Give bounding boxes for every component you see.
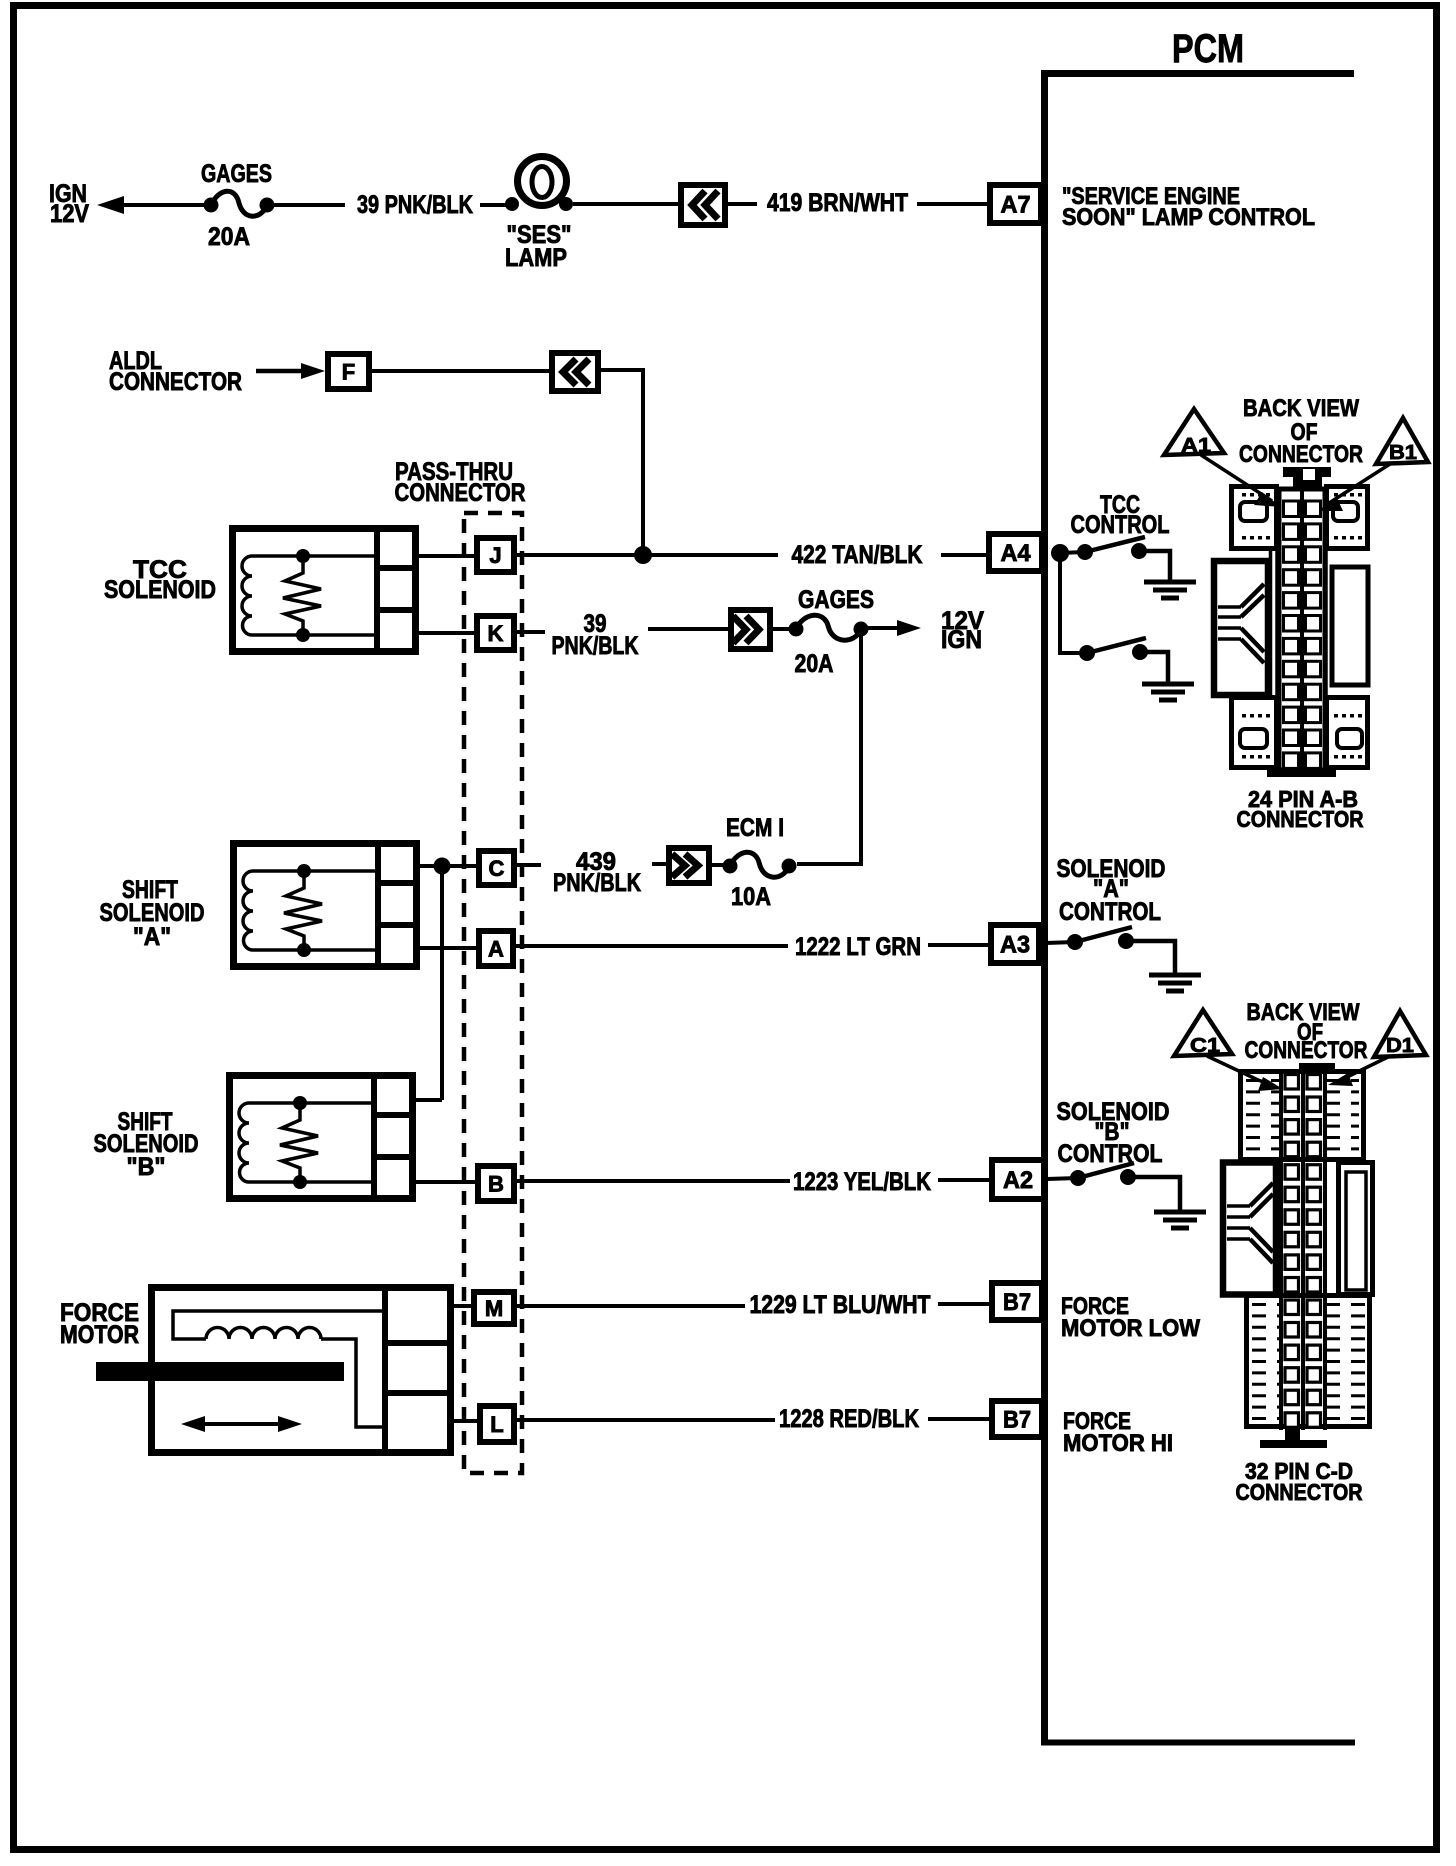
PCM block outline [1041,70,1355,1745]
ground (solenoid A control) [1149,975,1201,991]
svg-text:39 PNK/BLK: 39 PNK/BLK [357,191,473,219]
pin box F (ALDL) [328,354,369,389]
svg-text:A3: A3 [1000,932,1030,959]
svg-text:422 TAN/BLK: 422 TAN/BLK [792,541,923,569]
svg-text:C1: C1 [1190,1035,1220,1057]
svg-text:"B": "B" [127,1153,166,1181]
svg-text:C: C [489,856,505,881]
pass-thru pin box B [478,1166,514,1201]
label SOLENOID "B" CONTROL [1057,1098,1170,1168]
pass-thru pin box C [479,851,514,885]
caption 32 PIN C-D CONNECTOR [1236,1458,1363,1505]
svg-text:CONTROL: CONTROL [1059,898,1161,926]
label TCC CONTROL [1071,491,1170,539]
wire A2 to switch [1047,1178,1078,1179]
svg-text:"A": "A" [133,923,171,951]
svg-text:IGN: IGN [941,626,982,654]
callout triangle B1 [1376,418,1428,464]
24 pin left mid block with keyway hatch [1214,551,1277,696]
wire A3 to switch [1046,942,1075,943]
svg-text:A2: A2 [1003,1167,1033,1194]
wire solenoid B top feed (from C junction) [414,1098,442,1102]
svg-text:12V: 12V [50,200,89,228]
wire grommet to GAGES fuse [773,627,796,631]
wire switch to ground [1128,1177,1180,1210]
bulkhead grommet (right chevrons) C row [669,848,709,883]
svg-text:ECM I: ECM I [726,814,784,842]
wire force motor to pin M [452,1304,474,1308]
leader line C1 to pin [1207,1056,1283,1091]
pass-thru pin box J [477,538,514,572]
label BACK VIEW OF CONNECTOR (A-B) [1239,395,1363,468]
PCM pin box A2 [992,1160,1044,1199]
wire F to grommet [372,369,552,373]
PCM pin box B7 (force motor hi) [992,1401,1042,1437]
32 pin left mid block with keyway hatch [1223,1163,1276,1295]
svg-text:20A: 20A [795,650,834,678]
node IGN 12V (top left) [49,180,89,228]
leader line D1 to pin [1328,1057,1388,1086]
svg-text:CONNECTOR: CONNECTOR [1237,806,1364,832]
callout triangle C1 [1174,1010,1232,1057]
PCM pin box A7 [990,185,1041,223]
32 pin bottom block with dashes [1247,1296,1370,1427]
pass-thru connector dashed outline [464,513,522,1473]
PCM pin box B7 (force motor low) [992,1283,1042,1320]
svg-text:L: L [490,1412,503,1437]
wire lamp to bulkhead grommet [573,202,681,206]
pass-thru pin box L [480,1406,514,1442]
wire grommet to ECM I fuse [712,863,730,867]
24 pin connector body [1232,467,1368,770]
svg-text:1222 LT GRN: 1222 LT GRN [795,933,921,961]
PCM pin box A3 [991,925,1039,963]
svg-text:CONNECTOR: CONNECTOR [109,368,242,396]
svg-text:A: A [488,936,504,961]
svg-text:M: M [485,1296,503,1321]
wire fuse to lamp, label 39 PNK/BLK [274,191,506,219]
arrow ALDL to pin F [256,363,325,379]
svg-text:PCM: PCM [1172,27,1244,71]
svg-text:B1: B1 [1389,442,1417,464]
pass-thru pin box M [474,1292,514,1324]
wire solenoid A to pin A [420,946,479,950]
svg-text:J: J [489,543,501,568]
label SERVICE ENGINE SOON LAMP CONTROL [1062,183,1315,231]
svg-text:B7: B7 [1003,1407,1031,1434]
label FORCE MOTOR HI [1063,1408,1173,1457]
svg-text:B: B [488,1171,504,1196]
label ALDL CONNECTOR [109,347,242,396]
label BACK VIEW OF CONNECTOR (C-D) [1245,999,1368,1064]
callout triangle A1 [1164,409,1224,457]
wire 12V feed vertical (GAGES to ECM I) [797,629,861,864]
shift solenoid B component [230,1075,416,1199]
label SOLENOID "A" CONTROL [1057,855,1166,926]
svg-text:MOTOR LOW: MOTOR LOW [1061,1315,1200,1342]
svg-text:PNK/BLK: PNK/BLK [552,632,639,660]
wire junction down to TCC switch 2 [1060,553,1087,653]
TCC control switch 1 [1077,537,1147,560]
32 pin bottom tab foot [1260,1427,1327,1448]
caption 24 PIN A-B CONNECTOR [1237,786,1364,832]
svg-text:B7: B7 [1003,1289,1031,1316]
label FORCE MOTOR LOW [1061,1293,1200,1342]
solenoid A control switch [1067,927,1134,950]
wire 1223 YEL/BLK from B to A2 [517,1168,992,1196]
svg-text:SOON" LAMP CONTROL: SOON" LAMP CONTROL [1062,204,1315,231]
wire TCC solenoid to pin K [418,631,477,635]
fuse ECM I 10A [723,852,797,877]
fuse GAGES 20A (K row) [789,615,869,640]
svg-text:1228 RED/BLK: 1228 RED/BLK [779,1405,919,1433]
solenoid B control switch [1070,1163,1136,1186]
32 pin terminal grid [1281,1071,1325,1430]
label SHIFT SOLENOID "A" [100,876,205,951]
wire solenoid A to pin C with junction to solenoid B [420,858,479,1101]
svg-text:1223 YEL/BLK: 1223 YEL/BLK [793,1168,931,1196]
32 pin connector top tab [1299,1063,1335,1071]
svg-text:SOLENOID: SOLENOID [104,576,216,604]
24 pin terminal grid [1284,501,1321,768]
svg-text:CONTROL: CONTROL [1071,511,1170,539]
force motor component [96,1285,452,1453]
wire switch 2 to ground [1140,652,1168,682]
arrow to 12V IGN [861,607,984,654]
pass-thru pin box A [479,931,513,966]
wire 439 PNK/BLK from C to grommet [517,848,669,897]
wire 39 PNK/BLK from K to grommet [517,610,731,660]
svg-text:F: F [342,359,355,384]
svg-text:A1: A1 [1181,435,1211,457]
svg-text:1229 LT BLU/WHT: 1229 LT BLU/WHT [750,1291,931,1319]
svg-text:PNK/BLK: PNK/BLK [553,869,641,897]
svg-text:419 BRN/WHT: 419 BRN/WHT [767,189,908,217]
bulkhead grommet (right chevrons) K row [731,610,770,649]
24 pin bottom-left block [1232,698,1277,768]
ground (solenoid B control) [1154,1212,1206,1228]
svg-text:MOTOR HI: MOTOR HI [1063,1430,1173,1457]
lamp SES indicator [505,157,573,273]
svg-text:BACK VIEW: BACK VIEW [1243,395,1359,422]
TCC control switch 2 [1079,638,1148,661]
wire 1229 LT BLU/WHT from M to B7 [517,1291,992,1319]
svg-text:A7: A7 [1001,192,1031,219]
label PASS-THRU CONNECTOR [395,458,526,507]
svg-text:GAGES: GAGES [201,160,272,188]
label FORCE MOTOR [60,1299,139,1349]
svg-text:A4: A4 [1001,540,1032,567]
wire 1228 RED/BLK from L to B7 [517,1405,992,1433]
TCC solenoid component [233,528,419,652]
24 pin bottom tab [1267,768,1336,777]
wire switch 1 to ground [1139,551,1170,580]
svg-text:CONNECTOR: CONNECTOR [1239,441,1363,468]
32 pin right mid block [1339,1163,1373,1295]
svg-text:10A: 10A [731,883,771,911]
label SHIFT SOLENOID "B" [94,1108,199,1181]
wire 419 BRN/WHT to A7 [728,189,990,217]
svg-text:K: K [488,621,504,646]
wire grommet down to 422 junction [601,370,643,552]
bulkhead grommet (left chevrons) ALDL row [552,353,598,391]
svg-text:GAGES: GAGES [798,586,874,614]
svg-text:20A: 20A [208,223,250,251]
PCM pin box A4 [989,534,1042,571]
ground (TCC switch 2) [1142,684,1194,700]
bulkhead grommet (left chevrons) row 1 [681,185,725,225]
svg-text:CONNECTOR: CONNECTOR [1236,1479,1363,1505]
svg-text:CONNECTOR: CONNECTOR [1245,1037,1368,1064]
leader line A1 to pin [1201,455,1281,507]
24 pin right mid block [1326,551,1368,696]
leader line B1 to pin [1317,464,1390,511]
svg-text:CONTROL: CONTROL [1058,1140,1163,1168]
arrow to IGN 12V [97,196,124,214]
wire junction to TCC switch 1 [1060,552,1085,553]
callout triangle D1 [1374,1011,1426,1057]
svg-text:MOTOR: MOTOR [60,1321,139,1349]
wire TCC solenoid to pin J [418,554,477,558]
wire force motor to pin L [452,1419,480,1423]
fuse GAGES 20A (instrument panel) [204,191,275,216]
wire switch to ground [1126,941,1175,973]
32 pin connector top block with dashes [1241,1072,1364,1160]
wire 422 TAN/BLK from J to A4 with junction [517,541,990,569]
svg-text:D1: D1 [1386,1035,1414,1057]
ground (TCC switch 1) [1144,582,1196,598]
shift solenoid A component [234,843,420,967]
wire solenoid B to pin B [414,1180,478,1184]
label TCC SOLENOID [104,556,216,604]
wire IGN arrow to fuse [120,203,205,207]
pass-thru pin box K [477,616,514,650]
24 pin bottom-right block [1327,698,1368,768]
wire 1222 LT GRN from A to A3 [516,933,990,961]
svg-text:CONNECTOR: CONNECTOR [395,479,526,507]
svg-text:LAMP: LAMP [505,244,567,272]
node junction after A4 [1051,544,1069,562]
